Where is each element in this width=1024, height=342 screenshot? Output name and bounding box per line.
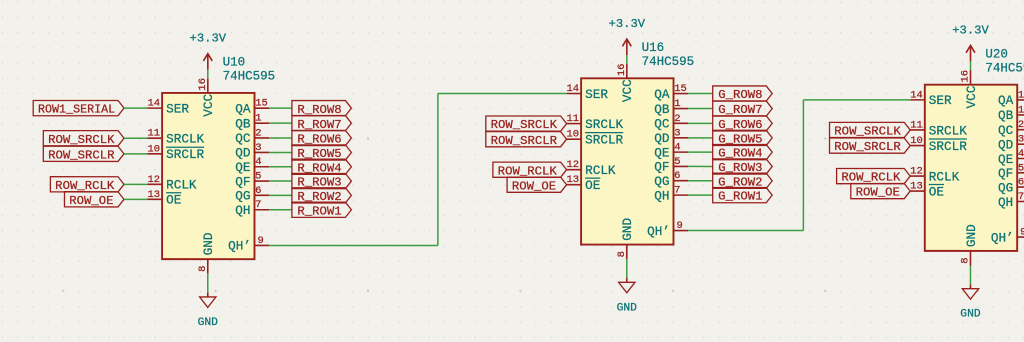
pin 5 QF (U10) [235,171,269,190]
reference U16 [642,41,665,55]
pin 3 QD (U10) [235,142,269,161]
wire ROW_RCLK to U10 [124,183,148,185]
svg-text:ROW1_SERIAL: ROW1_SERIAL [38,103,115,117]
svg-text:RCLK: RCLK [585,163,616,178]
wire VCC (U10) [207,70,209,79]
pin 8 GND (U20) [960,224,979,265]
pin 2 QC (U16) [654,113,688,132]
svg-text:10: 10 [147,143,160,155]
svg-text:QF: QF [235,174,250,189]
pin 12 RCLK (U10) [147,174,196,193]
svg-text:GND: GND [198,317,219,329]
svg-text:RCLK: RCLK [929,169,960,184]
global label ROW_SRCLK (U20 SRCLK) [830,122,911,138]
svg-text:QA: QA [654,87,670,102]
global label R_ROW8 [292,101,352,117]
svg-text:12: 12 [910,166,923,178]
svg-text:QG: QG [235,189,250,204]
svg-text:2: 2 [255,127,261,139]
svg-text:GND: GND [964,224,979,247]
svg-text:ROW_OE: ROW_OE [69,194,113,208]
svg-text:QC: QC [235,131,251,146]
svg-text:ROW_SRCLR: ROW_SRCLR [834,140,901,154]
global label G_ROW8 [713,86,773,102]
wire ROW1_SERIAL to U10 [124,107,148,109]
svg-text:GND: GND [960,309,981,321]
value 74HC595 (U16) [642,55,695,69]
ground symbol (U10) [198,293,219,329]
pin 6 QG (U10) [235,185,269,204]
pin 10 SRCLR (U20) [910,135,967,154]
svg-text:VCC: VCC [201,94,216,117]
wire U10 QC to R_ROW6 [269,137,292,139]
pin 13 OE (U10) [147,189,181,208]
global label ROW_RCLK (U16 RCLK) [493,162,567,178]
svg-text:14: 14 [567,83,580,95]
svg-text:3: 3 [255,142,261,154]
svg-text:+3.3V: +3.3V [609,17,646,31]
svg-text:13: 13 [566,174,579,186]
svg-text:QH: QH [998,195,1013,210]
svg-text:U16: U16 [642,41,665,55]
ground symbol (U20) [960,284,981,320]
wire U10 QA to R_ROW8 [269,107,292,109]
svg-text:8: 8 [960,257,972,263]
svg-text:QD: QD [998,138,1013,153]
svg-text:QF: QF [654,160,669,175]
pin 7 QH (U10) [235,199,269,218]
reference U20 [985,47,1008,61]
svg-text:1: 1 [1018,104,1024,116]
svg-text:QC: QC [998,123,1014,138]
pin 8 GND (U16) [616,218,635,259]
global label ROW1_SERIAL (U10 SER) [33,100,124,116]
pin 2 QC (U20) [998,119,1024,138]
svg-text:SER: SER [166,101,189,116]
wire U16 QC to G_ROW6 [688,122,713,124]
pin 4 QE (U16) [654,142,688,161]
svg-text:74HC595: 74HC595 [223,70,276,84]
global label ROW_SRCLR (U10 SRCLR) [43,146,124,162]
global label ROW_RCLK (U10 RCLK) [50,177,124,193]
svg-text:3: 3 [1018,134,1024,146]
svg-text:ROW_SRCLR: ROW_SRCLR [491,134,558,148]
pin 16 VCC (U10) [197,78,216,117]
global label ROW_SRCLR (U20 SRCLR) [830,138,911,154]
pin 11 SRCLK (U20) [910,119,967,138]
pin 4 QE (U20) [998,148,1024,167]
svg-text:13: 13 [910,181,923,193]
power +3.3V (U16) [609,17,646,55]
pin 3 QD (U20) [998,134,1024,153]
wire U16 QD to G_ROW5 [688,137,713,139]
IC U10 74HC595 body [162,93,254,259]
global label ROW_RCLK (U20 RCLK) [837,168,911,184]
svg-text:QC: QC [654,117,670,132]
wire U10 QG to R_ROW2 [269,194,292,196]
pin 10 SRCLR (U16) [566,129,623,148]
IC U16 74HC595 body [581,78,673,244]
pin 11 SRCLK (U16) [566,113,623,132]
svg-text:QA: QA [998,93,1014,108]
svg-text:OE: OE [166,193,181,208]
svg-text:ROW_OE: ROW_OE [856,186,900,200]
svg-text:8: 8 [197,266,209,272]
svg-text:5: 5 [674,156,680,168]
svg-text:15: 15 [674,83,687,95]
pin 9 QH' (U16) [647,220,688,239]
wire ROW_SRCLK to U10 [124,137,147,139]
wire U10 QH' to U16 SER (net /R_SERIAL2) [269,93,567,245]
global label ROW_SRCLR (U16 SRCLR) [486,132,567,148]
svg-text:QG: QG [998,180,1013,195]
svg-text:6: 6 [674,170,680,182]
wire U16 QE to G_ROW4 [688,151,713,153]
svg-text:QE: QE [235,160,250,175]
svg-text:ROW_RCLK: ROW_RCLK [55,179,115,193]
svg-text:QH’: QH’ [228,239,251,254]
global label G_ROW7 [713,101,773,117]
pin 1 QB (U20) [998,104,1024,123]
svg-text:G_ROW1: G_ROW1 [718,190,762,204]
wire GND (U10) [207,274,209,293]
svg-text:OE: OE [585,178,600,193]
pin 14 SER (U10) [148,98,190,117]
global label R_ROW5 [292,145,352,161]
svg-text:5: 5 [1018,162,1024,174]
pin 15 QA (U10) [235,98,269,117]
global label G_ROW4 [713,145,773,161]
svg-text:OE: OE [929,184,944,199]
svg-text:15: 15 [255,98,268,110]
global label R_ROW4 [292,159,352,175]
svg-text:9: 9 [676,220,682,232]
value 74HC595 (U20) [985,61,1024,75]
svg-text:14: 14 [910,89,923,101]
reference U10 [223,56,246,70]
svg-text:7: 7 [1018,191,1024,203]
svg-text:U10: U10 [223,56,246,70]
svg-text:RCLK: RCLK [166,178,197,193]
pin 5 QF (U16) [654,156,688,175]
global label R_ROW3 [292,173,352,189]
power +3.3V (U10) [190,32,227,70]
wire GND (U20) [969,265,971,284]
pin 6 QG (U20) [998,177,1024,196]
global label G_ROW5 [713,130,773,146]
svg-text:6: 6 [255,185,261,197]
svg-text:9: 9 [257,235,263,247]
wire U16 QB to G_ROW7 [688,108,713,110]
svg-text:7: 7 [255,199,261,211]
wire U10 QH to R_ROW1 [269,209,292,211]
global label R_ROW2 [292,188,352,204]
svg-text:SER: SER [929,93,952,108]
svg-text:QD: QD [235,146,250,161]
svg-text:16: 16 [616,64,628,77]
svg-text:QH’: QH’ [647,224,670,239]
svg-text:4: 4 [255,156,261,168]
wire U16 QA to G_ROW8 [688,93,713,95]
svg-text:QG: QG [654,174,669,189]
pin 5 QF (U20) [998,162,1024,181]
svg-text:16: 16 [960,70,972,83]
svg-text:4: 4 [1018,148,1024,160]
svg-text:VCC: VCC [620,79,635,102]
pin 10 SRCLR (U10) [147,143,204,162]
svg-text:74HC595: 74HC595 [985,61,1024,75]
global label ROW_SRCLK (U16 SRCLK) [486,116,567,132]
svg-text:SRCLR: SRCLR [585,133,623,148]
svg-text:SRCLK: SRCLK [929,123,967,138]
svg-text:74HC595: 74HC595 [642,55,695,69]
pin 12 RCLK (U16) [566,159,615,178]
svg-text:QH: QH [654,188,669,203]
wire VCC (U16) [626,55,628,64]
svg-text:15: 15 [1018,89,1024,101]
pin 14 SER (U20) [910,89,952,108]
svg-text:R_ROW1: R_ROW1 [297,204,341,218]
svg-text:ROW_OE: ROW_OE [512,179,556,193]
svg-text:QF: QF [998,166,1013,181]
svg-text:QD: QD [654,131,669,146]
svg-text:SER: SER [585,87,608,102]
pin 15 QA (U20) [998,89,1024,108]
svg-text:SRCLR: SRCLR [166,147,204,162]
svg-text:ROW_SRCLR: ROW_SRCLR [48,148,115,162]
svg-text:7: 7 [674,185,680,197]
svg-text:4: 4 [674,142,680,154]
svg-text:5: 5 [255,171,261,183]
global label ROW_OE (U20 OE) [851,183,910,199]
wire VCC (U20) [970,61,972,70]
svg-text:G_ROW7: G_ROW7 [718,103,762,117]
global label ROW_OE (U10 OE) [64,192,124,208]
svg-text:U20: U20 [985,47,1008,61]
ground symbol (U16) [617,278,638,314]
pin 11 SRCLK (U10) [147,128,204,147]
svg-text:GND: GND [201,232,216,255]
global label R_ROW7 [292,116,352,132]
wire GND (U16) [626,259,628,278]
pin 9 QH' (U20) [991,227,1024,246]
svg-text:12: 12 [566,159,579,171]
wire ROW_OE to U10 [124,198,148,200]
svg-text:12: 12 [147,174,160,186]
svg-text:16: 16 [197,78,209,91]
svg-text:R_ROW8: R_ROW8 [297,103,341,117]
pin 7 QH (U16) [654,185,688,204]
svg-text:10: 10 [910,135,923,147]
svg-text:SRCLR: SRCLR [929,139,967,154]
value 74HC595 (U10) [223,70,276,84]
svg-text:GND: GND [617,302,638,314]
svg-text:G_ROW8: G_ROW8 [718,88,762,102]
svg-text:ROW_SRCLK: ROW_SRCLK [491,118,558,132]
svg-text:SRCLK: SRCLK [166,132,204,147]
svg-text:13: 13 [147,189,160,201]
pin 14 SER (U16) [567,83,609,102]
svg-text:R_ROW7: R_ROW7 [297,118,341,132]
pin 9 QH' (U10) [228,235,269,254]
svg-text:QH: QH [235,203,250,218]
svg-text:1: 1 [674,98,680,110]
pin 2 QC (U10) [235,127,269,146]
svg-text:VCC: VCC [964,85,979,108]
svg-text:QB: QB [998,108,1014,123]
wire U16 QF to G_ROW3 [688,165,713,167]
wire ROW_SRCLR to U10 [124,153,147,155]
wire U10 QD to R_ROW5 [269,151,292,153]
global label ROW_SRCLK (U10 SRCLK) [43,131,124,147]
svg-text:11: 11 [910,119,923,131]
pin 13 OE (U16) [566,174,600,193]
pin 1 QB (U16) [654,98,688,117]
global label G_ROW6 [713,116,773,132]
wire U16 QH' to U20 SER (net /G_SERIAL2) [688,100,910,231]
global label G_ROW3 [713,159,773,175]
pin 4 QE (U10) [235,156,269,175]
svg-text:ROW_RCLK: ROW_RCLK [498,164,558,178]
svg-text:3: 3 [674,127,680,139]
svg-text:QB: QB [235,116,251,131]
svg-text:11: 11 [567,113,580,125]
pin 6 QG (U16) [654,170,688,189]
global label ROW_OE (U16 OE) [507,177,567,193]
pin 16 VCC (U16) [616,64,635,103]
pin 15 QA (U16) [654,83,688,102]
global label R_ROW1 [292,202,352,218]
pin 8 GND (U10) [197,232,216,273]
pin 3 QD (U16) [654,127,688,146]
svg-text:ROW_SRCLK: ROW_SRCLK [48,133,115,147]
pin 13 OE (U20) [910,181,944,200]
svg-text:ROW_SRCLK: ROW_SRCLK [834,125,901,139]
svg-text:QB: QB [654,102,670,117]
global label G_ROW2 [713,173,773,189]
svg-text:11: 11 [147,128,160,140]
svg-text:SRCLK: SRCLK [585,117,623,132]
svg-text:1: 1 [255,113,261,125]
svg-text:QH’: QH’ [991,230,1014,245]
pin 1 QB (U10) [235,113,269,132]
svg-text:QE: QE [654,145,669,160]
svg-text:+3.3V: +3.3V [190,32,227,46]
power +3.3V (U20) [952,23,989,61]
wire U10 QF to R_ROW3 [269,180,292,182]
svg-text:14: 14 [148,98,161,110]
global label G_ROW1 [713,188,773,204]
pin 16 VCC (U20) [960,70,979,109]
svg-text:9: 9 [1020,227,1024,239]
svg-text:2: 2 [674,113,680,125]
svg-text:ROW_RCLK: ROW_RCLK [841,171,901,185]
svg-text:8: 8 [616,251,628,257]
svg-text:+3.3V: +3.3V [952,23,989,37]
wire U10 QB to R_ROW7 [269,122,292,124]
svg-text:GND: GND [620,218,635,241]
wire U10 QE to R_ROW4 [269,166,292,168]
wire U16 QH to G_ROW1 [688,194,713,196]
IC U20 74HC595 body [925,85,1017,251]
svg-text:2: 2 [1018,119,1024,131]
global label R_ROW6 [292,130,352,146]
svg-text:QA: QA [235,101,251,116]
pin 12 RCLK (U20) [910,166,959,185]
svg-text:QE: QE [998,152,1013,167]
wire U16 QG to G_ROW2 [688,180,713,182]
svg-text:10: 10 [566,129,579,141]
svg-text:6: 6 [1018,177,1024,189]
pin 7 QH (U20) [998,191,1024,210]
